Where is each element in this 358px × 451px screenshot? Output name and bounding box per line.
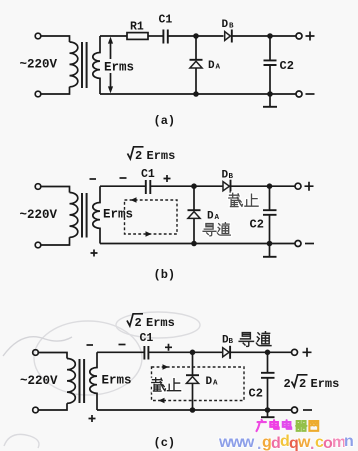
dashed current loop (b) [125, 200, 178, 234]
capacitor C2 (c) [267, 352, 269, 372]
label jiezhi (cut-off) (c) [152, 378, 181, 391]
svg-text:2: 2 [135, 316, 142, 330]
wire DB to + terminal (a) [232, 35, 296, 37]
capacitor C1 (a) [163, 30, 167, 44]
wire C1 to node (c) [148, 351, 222, 353]
svg-text:Erms: Erms [147, 149, 176, 163]
transformer T primary winding (c) [67, 359, 75, 404]
diode DB (b) [223, 182, 229, 191]
wire bottom rail (a) [100, 93, 296, 95]
wire bottom rail (b) [100, 243, 295, 245]
wire secondary top to C1 (c) [97, 351, 144, 353]
terminal output - (a) [296, 91, 302, 97]
label minus (a) [306, 93, 315, 95]
terminal output + (b) [295, 183, 301, 189]
label daotong (conducting) (b) [203, 223, 230, 236]
svg-text:A: A [213, 380, 218, 388]
diode DB (c) [223, 348, 229, 357]
terminal input bottom (c) [33, 407, 39, 413]
label C1 plus polarity (b) [164, 175, 171, 182]
ground (b) [269, 244, 271, 257]
transformer T secondary winding (b) [93, 186, 100, 243]
node junction bottom of DA (c) [190, 407, 196, 413]
node junction top of C2 (b) [267, 183, 273, 189]
svg-text:C2: C2 [250, 218, 264, 232]
transformer T core (b) [82, 193, 87, 238]
node junction bottom of DA (a) [193, 91, 199, 97]
capacitor C1 (c) [144, 346, 148, 360]
label C1 minus polarity (c) [119, 344, 126, 346]
arrow current right on top edge (c) [163, 364, 169, 370]
diode DA (c) [192, 352, 194, 374]
label daotong (conducting) (c) [239, 332, 271, 347]
resistor R1 [127, 33, 148, 40]
svg-text:.: . [257, 436, 261, 451]
svg-text:D: D [208, 60, 215, 72]
svg-text:(b): (b) [154, 268, 176, 282]
terminal input bottom (a) [35, 91, 41, 97]
svg-text:n: n [344, 433, 354, 450]
svg-text:A: A [215, 214, 220, 222]
ground (c) [267, 410, 269, 417]
svg-text:2: 2 [284, 377, 291, 391]
ground (a) [269, 94, 271, 107]
svg-text:Erms: Erms [104, 61, 134, 75]
svg-text:C1: C1 [141, 168, 155, 181]
svg-text:(c): (c) [154, 436, 176, 450]
node junction A (a) [193, 33, 199, 39]
dimension arrow Erms (a) [110, 40, 112, 90]
capacitor C1 (b) [146, 180, 151, 194]
node junction top of C2 (a) [267, 33, 273, 39]
svg-text:Erms: Erms [146, 316, 175, 330]
arrow current left on top edge (b) [131, 197, 137, 203]
node junction top of DA (c) [190, 350, 196, 356]
wire C1 to node A (a) [168, 35, 224, 37]
svg-text:~220V: ~220V [20, 58, 58, 72]
svg-text:C2: C2 [249, 387, 263, 401]
label minus (b) [305, 243, 314, 245]
wire C1 to node (b) [150, 185, 223, 187]
transformer T primary winding (a) [70, 42, 78, 87]
label jiezhi (cut-off) (b) [229, 193, 258, 206]
svg-text:R1: R1 [130, 21, 144, 34]
wire DB to + terminal (b) [231, 185, 296, 187]
svg-text:D: D [206, 376, 213, 388]
svg-text:B: B [229, 338, 234, 346]
label secondary minus (c) [87, 344, 94, 346]
transformer T secondary winding (c) [90, 352, 97, 410]
svg-text:~220V: ~220V [20, 374, 58, 388]
svg-text:C1: C1 [140, 332, 154, 345]
terminal output + (c) [292, 349, 298, 355]
svg-text:D: D [222, 19, 229, 31]
wire bottom rail (c) [97, 409, 292, 411]
label C1 minus polarity (b) [120, 177, 127, 179]
node junction bottom of C2 (a) [267, 91, 273, 97]
wire R1 to C1 (a) [148, 35, 163, 37]
svg-text:(a): (a) [154, 114, 176, 128]
label secondary minus (b) [90, 178, 97, 180]
svg-text:D: D [207, 211, 214, 223]
label sqrt2 Erms (b) [128, 147, 144, 159]
wire primary leads (c) [38, 353, 67, 411]
svg-text:w: w [297, 434, 311, 451]
svg-text:2: 2 [299, 377, 306, 391]
transformer T core (a) [82, 42, 87, 88]
node junction bottom of C2 (b) [267, 241, 273, 247]
label C1 plus polarity (c) [165, 344, 172, 351]
capacitor C2 (a) [269, 36, 271, 60]
svg-text:Erms: Erms [102, 374, 132, 388]
svg-text:B: B [229, 173, 234, 181]
wire primary leads (a) [41, 36, 70, 94]
label minus (c) [303, 409, 312, 411]
transformer T secondary winding (a) [93, 36, 100, 94]
svg-text:D: D [222, 170, 229, 182]
terminal output - (b) [295, 241, 301, 247]
arrow current left on bottom edge (c) [159, 398, 165, 404]
svg-text:.: . [310, 436, 314, 451]
arrow current right on bottom edge (b) [146, 231, 152, 237]
terminal output + (a) [296, 33, 302, 39]
label plus (a) [306, 32, 315, 41]
node junction top of C2 (c) [265, 350, 271, 356]
svg-text:2: 2 [135, 149, 142, 163]
node junction bottom of DA (b) [191, 241, 197, 247]
svg-text:B: B [229, 23, 234, 31]
svg-text:www: www [218, 434, 255, 451]
diode DA (b) [193, 186, 195, 209]
svg-text:C1: C1 [159, 14, 173, 27]
wire primary leads (b) [41, 187, 70, 246]
watermark url row [218, 433, 354, 451]
wire secondary top to R1 (a) [100, 35, 127, 37]
label secondary plus (c) [89, 415, 96, 422]
ghost watermark arcs (c) [3, 312, 200, 448]
node junction bottom of C2 (c) [265, 407, 271, 413]
svg-text:~220V: ~220V [20, 208, 58, 222]
terminal input top (b) [35, 184, 41, 190]
wire secondary top to C1 (b) [100, 185, 145, 187]
svg-text:C2: C2 [280, 59, 294, 73]
svg-text:Erms: Erms [311, 377, 340, 391]
transformer T primary winding (b) [70, 193, 78, 238]
label plus (c) [303, 348, 312, 357]
transformer T core (c) [80, 359, 85, 403]
label secondary plus (b) [91, 250, 98, 257]
label sqrt2 Erms (c) [127, 314, 143, 326]
node junction top of DA (b) [191, 183, 197, 189]
label plus (b) [305, 182, 314, 191]
diode DB (a) [225, 32, 231, 41]
svg-text:Erms: Erms [103, 208, 133, 222]
terminal input top (c) [33, 350, 39, 356]
capacitor C2 (b) [269, 186, 271, 210]
watermark site name guangdiandianqiwang [257, 420, 319, 431]
terminal output - (c) [292, 407, 298, 413]
wire DB to + terminal (c) [230, 351, 292, 353]
dashed current loop (c) [152, 367, 245, 401]
svg-text:A: A [216, 64, 221, 72]
diode DA (a) [195, 36, 197, 59]
terminal input bottom (b) [35, 242, 41, 248]
terminal input top (a) [35, 33, 41, 39]
